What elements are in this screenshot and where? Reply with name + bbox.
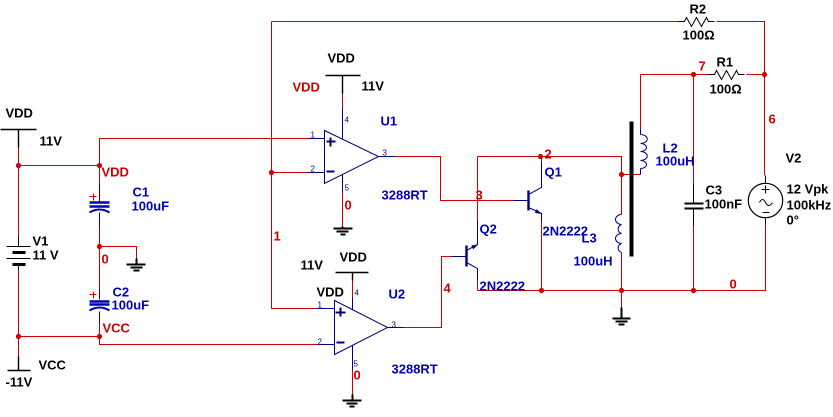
U1 minus sign (327, 171, 335, 173)
ground below U2 pin5 (343, 395, 362, 407)
svg-text:3: 3 (476, 188, 483, 203)
junction: net1 tap for U1 - input (269, 170, 274, 175)
inductor L2 (641, 129, 648, 175)
svg-text:L3: L3 (582, 231, 597, 246)
svg-text:1: 1 (311, 131, 316, 140)
svg-text:R2: R2 (690, 2, 707, 17)
wire: net2 vertical down to Q2 emitter (477, 157, 479, 222)
svg-text:11V: 11V (301, 258, 324, 273)
junction: R1 right on net6 (762, 72, 767, 77)
battery V1 (7, 237, 31, 271)
wire: C1 bottom to node 0 (99, 231, 101, 247)
svg-text:0: 0 (730, 277, 737, 292)
wire: net1 tap to U1 - input (272, 172, 308, 174)
wire: VDD node to U1 + input (100, 139, 309, 166)
op-amp U2 (317, 298, 404, 370)
svg-text:100uF: 100uF (112, 298, 150, 313)
svg-text:VDD: VDD (293, 80, 320, 95)
wire: C3 bottom to net0 (693, 226, 695, 291)
svg-text:VDD: VDD (340, 250, 367, 265)
junction: node 7 (691, 72, 696, 77)
wire: R1 right lead to net6 (747, 74, 765, 76)
junction: node 0 at C1 bottom (97, 244, 102, 249)
wire: L3 bottom to net0 (621, 253, 623, 291)
junction: VCC node (97, 334, 102, 339)
svg-text:100Ω: 100Ω (683, 28, 715, 43)
wire: VCC rail down to VCC symbol (18, 337, 20, 357)
wire: VCC node step to U2 - input (100, 337, 318, 345)
svg-text:-11V: -11V (6, 375, 33, 390)
transistor Q2 (flipped) (452, 222, 478, 281)
capacitor C2 (90, 289, 110, 323)
svg-text:5: 5 (345, 184, 350, 193)
svg-text:2: 2 (318, 338, 323, 347)
svg-text:Q2: Q2 (480, 222, 497, 237)
wire: V1 minus down to VCC rail (18, 271, 20, 337)
C1 plus sign (90, 194, 97, 201)
wire: node 0 to ground branch (100, 247, 137, 259)
svg-text:3288RT: 3288RT (382, 188, 428, 203)
power symbol VDD above U2 (336, 273, 369, 281)
wire: U2 pin5 to ground red segment (352, 370, 354, 395)
wire: net7 horizontal and down to L2 top (641, 74, 709, 76)
C2 plus sign (90, 292, 97, 299)
junction: VDD node (97, 163, 102, 168)
svg-text:2: 2 (311, 165, 316, 174)
svg-text:100kHz: 100kHz (787, 198, 832, 213)
wire: VDD rail horizontal left (19, 165, 100, 167)
svg-text:100uF: 100uF (132, 199, 170, 214)
wire: Q1 collector red stub (541, 157, 543, 162)
transistor Q1 (514, 162, 542, 223)
svg-text:V2: V2 (786, 151, 802, 166)
svg-text:2N2222: 2N2222 (480, 279, 526, 294)
svg-text:C1: C1 (133, 185, 150, 200)
svg-text:V1: V1 (33, 234, 49, 249)
junction: ground tap on net0 (619, 288, 624, 293)
svg-text:1: 1 (274, 229, 281, 244)
U2 plus sign (336, 308, 346, 317)
svg-text:VDD: VDD (317, 285, 344, 300)
wire: node 0 down to C2 top (99, 247, 101, 289)
svg-text:100uH: 100uH (574, 254, 613, 269)
wire: net0 bottom horizontal (478, 225, 766, 291)
svg-text:VDD: VDD (102, 165, 129, 180)
svg-text:6: 6 (769, 112, 776, 127)
svg-text:100nF: 100nF (705, 197, 743, 212)
transformer core bar (630, 122, 634, 257)
wire: U1 VDD stem red segment (342, 94, 344, 109)
wire: U1 pin5 to ground red segment (342, 192, 344, 227)
svg-text:VDD: VDD (328, 51, 355, 66)
svg-text:4: 4 (345, 116, 350, 125)
capacitor C1 (90, 184, 110, 231)
svg-text:12 Vpk: 12 Vpk (787, 182, 830, 197)
svg-text:4: 4 (355, 289, 360, 298)
svg-text:U1: U1 (381, 114, 398, 129)
svg-text:VCC: VCC (39, 358, 67, 373)
junction: Q1 collector on net2 (538, 154, 543, 159)
junction: L2 bottom on net2 vertical (619, 172, 624, 177)
ground at node 0 (127, 259, 146, 271)
junction: VCC rail left (16, 334, 21, 339)
ground below U1 pin5 (334, 227, 353, 235)
wire: net1 long vertical x=271 down to U2 + input (272, 22, 317, 309)
svg-text:3: 3 (392, 321, 397, 330)
wire: VCC rail horizontal (19, 336, 100, 338)
junction: Q1 emitter on net0 (539, 288, 544, 293)
U2 minus sign (337, 342, 345, 344)
Q1 emitter arrow (535, 209, 542, 214)
svg-text:0: 0 (354, 368, 361, 383)
power symbol VCC bottom-left (8, 357, 31, 371)
wire: net4 U2 output to Q2 base (404, 257, 452, 328)
wire: VDD node down through C1 top stub (99, 166, 101, 184)
svg-text:C3: C3 (706, 183, 723, 198)
inductor L3 (616, 215, 622, 253)
svg-text:7: 7 (699, 59, 706, 74)
junction: VDD rail left (16, 163, 21, 168)
svg-text:4: 4 (444, 281, 452, 296)
wire: net3 U1 output to Q1 base (395, 157, 514, 201)
wire: L2 bottom link to net2 (622, 174, 641, 176)
svg-text:U2: U2 (389, 287, 406, 302)
svg-text:3288RT: 3288RT (392, 362, 438, 377)
op-amp U1 (308, 109, 395, 192)
AC source V2 (748, 176, 782, 225)
svg-text:100uH: 100uH (656, 154, 695, 169)
svg-text:Q1: Q1 (545, 165, 562, 180)
wire: C2 bottom to VCC node (99, 323, 101, 337)
wire: VDD symbol stem red part (18, 148, 20, 237)
svg-text:1: 1 (318, 301, 323, 310)
power symbol VDD top-left (1, 130, 37, 148)
wire: Q1 emitter down to net0 (541, 223, 543, 291)
svg-text:0: 0 (345, 198, 352, 213)
svg-text:2: 2 (545, 147, 552, 162)
svg-text:11 V: 11 V (33, 248, 59, 263)
wire: Q2 collector down to net0 (477, 281, 479, 291)
wire: net7 down to C3 (693, 75, 695, 184)
svg-text:R1: R1 (717, 55, 734, 70)
U1 plus sign (327, 138, 336, 147)
wire: net2 down to L3 top (621, 175, 623, 215)
wire: net2 horizontal Q2 emitter to transformer (478, 157, 622, 175)
power symbol VDD above U1 (326, 76, 361, 94)
resistor R1 (709, 71, 745, 80)
wire: net1 top horizontal from x=271 to R2 (272, 21, 679, 23)
svg-text:11V: 11V (40, 134, 63, 149)
svg-text:3: 3 (383, 149, 388, 158)
Q2 emitter arrow (471, 244, 478, 249)
ground below transformer (613, 308, 631, 325)
junction: C3 on net0 (691, 288, 696, 293)
svg-text:100Ω: 100Ω (710, 82, 742, 97)
wire: U2 VDD stem red segment (352, 281, 354, 298)
capacitor C3 (685, 184, 704, 226)
resistor R2 (679, 18, 715, 27)
svg-text:11V: 11V (362, 79, 385, 94)
svg-text:VDD: VDD (6, 106, 33, 121)
svg-text:0: 0 (102, 252, 109, 267)
wire: net0 ground stub (621, 291, 623, 308)
svg-text:VCC: VCC (103, 321, 131, 336)
wire: R2 right to net6 vertical down to V2 top (717, 22, 765, 176)
svg-text:0°: 0° (787, 213, 799, 228)
